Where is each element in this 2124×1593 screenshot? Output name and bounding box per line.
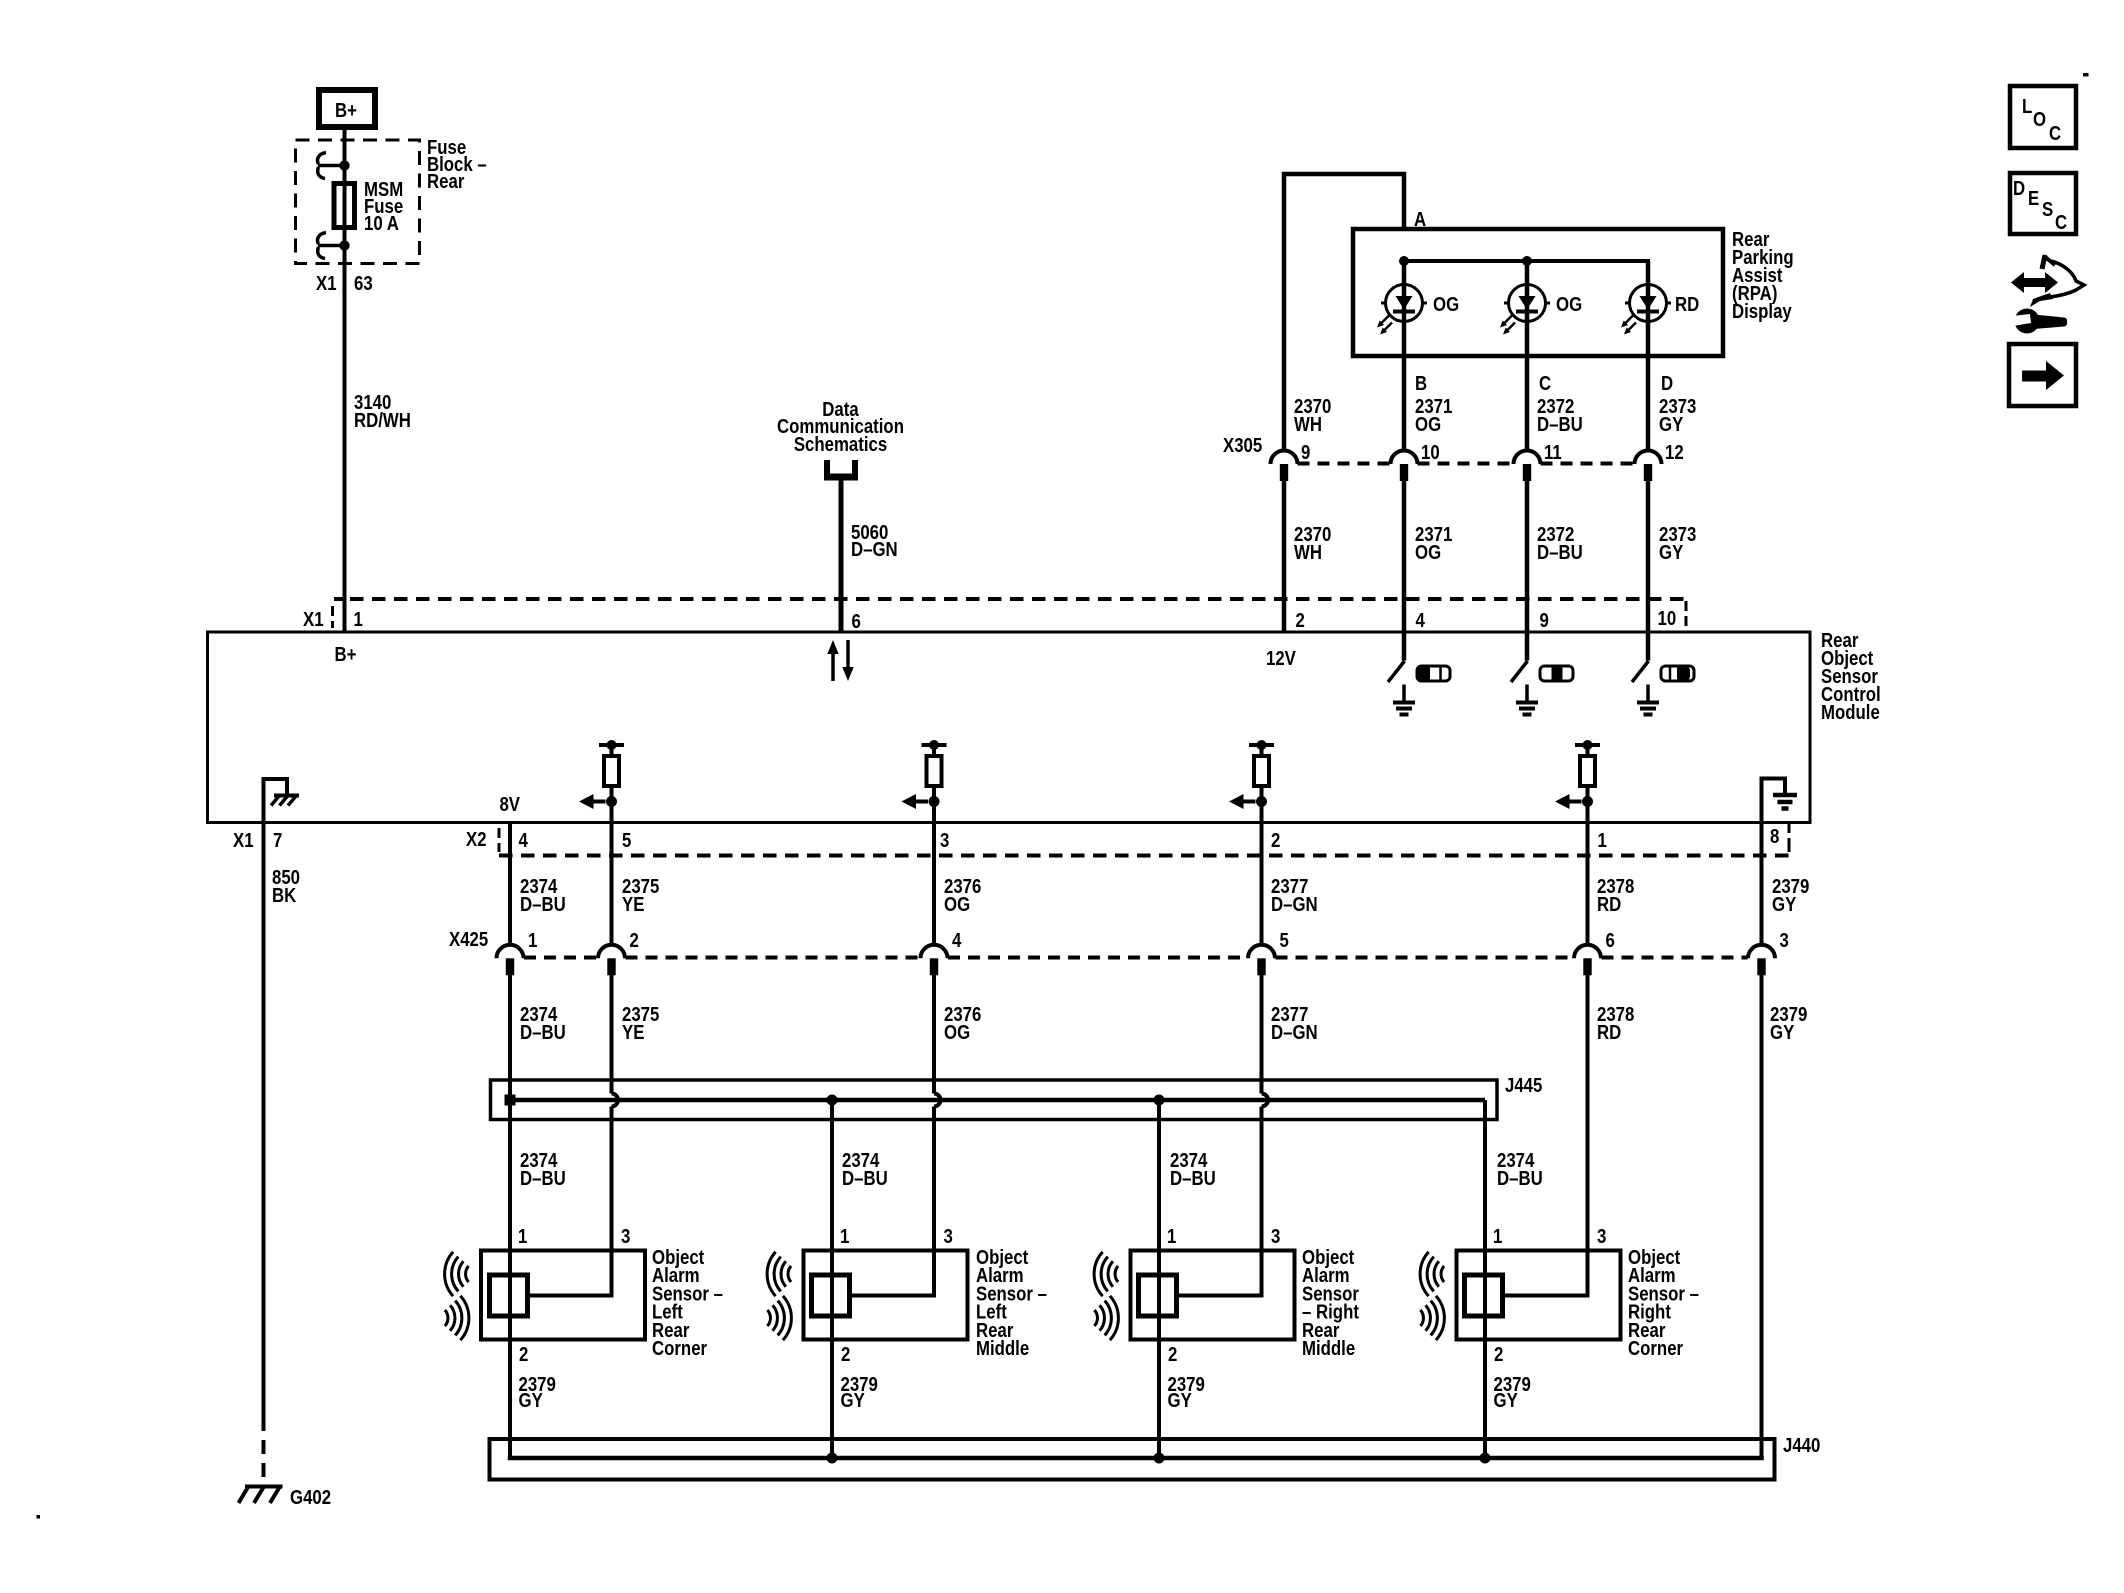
LED driver switch at pin (x=1404) (1388, 632, 1415, 715)
wire labels 2374 D-BU to sensors (520, 1148, 1543, 1189)
svg-text:D–GN: D–GN (1271, 1020, 1318, 1043)
svg-text:D–BU: D–BU (842, 1166, 888, 1189)
svg-text:GY: GY (1659, 412, 1684, 435)
sensor 2 internal link wire (850, 1251, 935, 1296)
Rear Parking Assist (RPA) Display box (1353, 229, 1723, 356)
module internal ground (earth) at X2-8 (1762, 779, 1798, 823)
object alarm sensor 4 box (1457, 1251, 1621, 1340)
connector X305 pin 10 (1391, 450, 1418, 481)
svg-text:D–BU: D–BU (1497, 1166, 1543, 1189)
sensor 3 pin 2 and ground wire 2379 GY (1157, 1340, 1161, 1459)
wire label 5060 D-GN (851, 520, 898, 560)
svg-text:GY: GY (519, 1388, 544, 1411)
svg-text:1: 1 (1493, 1224, 1502, 1247)
ground G402 (chassis) (239, 1486, 283, 1504)
wire 2374 D-BU (8V feed) module X2-4 to X425-1 (508, 822, 512, 945)
label Rear Object Sensor Control Module (1821, 628, 1881, 723)
connector X425 pin 1 (497, 945, 524, 976)
svg-text:E: E (2028, 186, 2039, 209)
svg-text:12: 12 (1665, 440, 1684, 463)
car distance icon (mid segment filled) (1540, 666, 1573, 681)
svg-text:5: 5 (622, 828, 631, 851)
sensor 2 label (976, 1245, 1047, 1359)
splice node sensor 2 ground (827, 1453, 838, 1464)
svg-text:1: 1 (840, 1224, 849, 1247)
sensor 3 internal link wire (1177, 1251, 1262, 1296)
wire labels above X305 (1294, 394, 1696, 435)
ultrasonic waves icon sensor 1 (445, 1252, 469, 1340)
ultrasonic waves icon sensor 2 (767, 1252, 791, 1340)
wire label 2379 GY below sensor 4 (1494, 1372, 1531, 1411)
connector X305 pin 11 (1514, 450, 1541, 481)
RPA internal supply bus (1404, 261, 1648, 285)
ultrasonic waves icon sensor 3 (1094, 1252, 1118, 1340)
wire label 2379 GY below sensor 3 (1168, 1372, 1205, 1411)
Rear Object Sensor Control Module box (208, 632, 1811, 823)
svg-text:5: 5 (1280, 928, 1289, 951)
svg-text:X1: X1 (233, 828, 254, 851)
connector X425 pin 2 (598, 945, 625, 976)
junction node at LED2 (1522, 256, 1532, 266)
splice pack J440 box (490, 1439, 1775, 1480)
pull-up resistor R4 with sense arrow (1555, 740, 1600, 822)
svg-text:7: 7 (273, 828, 282, 851)
wire 2374 branch to sensor 2 (830, 1100, 834, 1251)
icon wiring/repair (double arrow, outline arrow, wrench) (2011, 255, 2084, 334)
svg-text:D–BU: D–BU (520, 1166, 566, 1189)
svg-text:3: 3 (1780, 928, 1789, 951)
svg-text:OG: OG (1415, 540, 1441, 563)
svg-text:3: 3 (940, 828, 949, 851)
svg-text:C: C (1539, 371, 1552, 394)
svg-text:X2: X2 (466, 827, 487, 850)
wire label 3140 RD/WH (354, 390, 411, 431)
svg-text:BK: BK (272, 883, 297, 906)
module connector boundary X1 (top, dashed) (333, 599, 1687, 628)
svg-text:X1: X1 (316, 271, 337, 294)
svg-text:D–BU: D–BU (520, 892, 566, 915)
sensor 3 pin numbers 1 and 3 (1167, 1224, 1280, 1247)
svg-text:GY: GY (841, 1388, 866, 1411)
svg-text:63: 63 (354, 271, 373, 294)
svg-text:S: S (2042, 197, 2053, 220)
svg-text:D–GN: D–GN (851, 537, 898, 560)
serial data bidirectional arrows (827, 640, 853, 681)
svg-text:X305: X305 (1223, 433, 1262, 456)
wire 850 BK from module X1-7 to G402 (262, 822, 266, 1417)
svg-text:3: 3 (944, 1224, 953, 1247)
sensor 4 transducer element (1465, 1275, 1503, 1316)
J445 bus (510, 1098, 1485, 1103)
svg-text:Middle: Middle (1302, 1336, 1355, 1359)
svg-text:G402: G402 (290, 1485, 331, 1508)
svg-text:L: L (2022, 94, 2032, 117)
sensor 3 transducer element (1139, 1275, 1177, 1316)
wire 5060 D-GN (serial data) (839, 480, 844, 632)
wire label 850 BK (272, 865, 300, 906)
sensor 3 pin 1 internal wire (1157, 1251, 1161, 1340)
svg-text:2: 2 (630, 928, 639, 951)
module bottom pin numbers (233, 824, 1779, 851)
svg-text:D–BU: D–BU (520, 1020, 566, 1043)
svg-text:OG: OG (1556, 292, 1582, 315)
sensor 2 pin numbers 1 and 3 (840, 1224, 953, 1247)
svg-text:6: 6 (1606, 928, 1615, 951)
connector X305 pin 9 (1271, 450, 1298, 481)
svg-text:WH: WH (1294, 540, 1322, 563)
svg-text:A: A (1414, 207, 1427, 230)
wire 2374 branch to sensor 1 (508, 1100, 512, 1251)
wire label 2379 GY below sensor 2 (841, 1372, 878, 1411)
wire 2378 RD module to X425 (1586, 822, 1590, 945)
svg-text:WH: WH (1294, 412, 1322, 435)
svg-text:O: O (2033, 107, 2046, 130)
svg-text:Module: Module (1821, 700, 1880, 723)
wire 3140 RD/WH from B+ through MSM fuse to module X1-1 (343, 130, 347, 632)
pull-up resistor R3 with sense arrow (1229, 740, 1274, 822)
module internal ground (chassis) at X1-7 (264, 779, 300, 822)
svg-text:2: 2 (1168, 1342, 1177, 1365)
svg-text:10: 10 (1421, 440, 1440, 463)
svg-text:GY: GY (1772, 892, 1797, 915)
sensor 4 label (1628, 1245, 1699, 1359)
LED indicator RD (1621, 261, 1671, 356)
svg-text:2: 2 (841, 1342, 850, 1365)
sensor 2 pin 2 and ground wire 2379 GY (830, 1340, 834, 1459)
splice node to sensor 2 (827, 1095, 838, 1106)
object alarm sensor 3 box (1131, 1251, 1295, 1340)
fuse MSM 10 A (334, 184, 355, 228)
svg-text:YE: YE (622, 892, 644, 915)
wires from X305 down to module (1282, 481, 1287, 632)
svg-text:OG: OG (1415, 412, 1441, 435)
svg-text:3: 3 (621, 1224, 630, 1247)
svg-text:6: 6 (852, 609, 861, 632)
wire 2375 YE X425-2 to sensor 1 (hops J445 bus) (610, 975, 614, 1251)
svg-text:D: D (1661, 371, 1673, 394)
LED driver switch at pin (x=1527) (1511, 632, 1538, 715)
icon LOC (2010, 86, 2076, 148)
sensor 4 pin 1 internal wire (1483, 1251, 1487, 1340)
ultrasonic waves icon sensor 4 (1420, 1252, 1444, 1340)
svg-text:Corner: Corner (652, 1336, 707, 1359)
X425 connector dashed tie lines (524, 956, 1748, 960)
svg-text:J440: J440 (1783, 1433, 1820, 1456)
sensor 4 pin 2 and ground wire 2379 GY (1483, 1340, 1487, 1459)
svg-text:D–GN: D–GN (1271, 892, 1318, 915)
svg-text:8V: 8V (499, 792, 520, 815)
fuse block connector pins X1 63 (316, 271, 373, 294)
svg-text:YE: YE (622, 1020, 644, 1043)
connector X425 pin 6 (1574, 945, 1601, 976)
car distance icon (left segment filled) (1417, 666, 1450, 681)
wire 2377 D-GN X425-5 to sensor 3 (hops J445 bus) (1260, 975, 1264, 1251)
wire 2376 OG X425-4 to sensor 2 (hops J445 bus) (932, 975, 936, 1251)
wire 2376 OG module to X425 (932, 822, 936, 945)
svg-text:11: 11 (1544, 440, 1562, 463)
svg-text:2: 2 (1271, 828, 1280, 851)
svg-text:D–BU: D–BU (1537, 412, 1583, 435)
svg-text:GY: GY (1168, 1388, 1193, 1411)
svg-text:B: B (1415, 371, 1427, 394)
J440 bus (510, 1456, 1762, 1458)
svg-text:B+: B+ (335, 642, 357, 665)
module connector boundary X1/X2 (bottom, dashed) (499, 823, 1789, 856)
object alarm sensor 1 box (481, 1251, 645, 1340)
svg-text:RD: RD (1597, 1020, 1621, 1043)
off-page bracket symbol (824, 460, 858, 477)
svg-text:4: 4 (952, 928, 962, 951)
wire labels below X305 (1294, 522, 1696, 563)
sensor 1 pin 2 and ground wire 2379 GY (508, 1340, 512, 1459)
wire 2375 YE module to X425 (610, 822, 614, 945)
sensor 1 transducer element (490, 1275, 528, 1316)
module top pin numbers (303, 606, 1676, 632)
label Fuse Block - Rear (427, 135, 487, 192)
svg-text:GY: GY (1770, 1020, 1795, 1043)
svg-text:RD: RD (1597, 892, 1621, 915)
sensor 4 pin numbers 1 and 3 (1493, 1224, 1606, 1247)
label Rear Parking Assist (RPA) Display (1732, 227, 1794, 322)
sensor 1 internal link wire (528, 1251, 612, 1296)
svg-text:3: 3 (1271, 1224, 1280, 1247)
sensor 2 pin 1 internal wire (830, 1251, 834, 1340)
svg-text:3: 3 (1597, 1224, 1606, 1247)
svg-text:9: 9 (1540, 608, 1549, 631)
svg-text:GY: GY (1494, 1388, 1519, 1411)
svg-text:OG: OG (944, 892, 970, 915)
svg-text:J445: J445 (1505, 1073, 1542, 1096)
wire 2370 WH from module X1-2 up over to RPA display pin A (1284, 174, 1404, 451)
svg-text:D–BU: D–BU (1170, 1166, 1216, 1189)
wire 2378 RD X425-6 to sensor 4 (1586, 975, 1590, 1251)
fuse clip terminal upper (318, 153, 350, 179)
pin letters B C D (1415, 371, 1673, 394)
sensor 1 label (652, 1245, 723, 1359)
wire labels below X425 (520, 1002, 1807, 1043)
svg-text:2: 2 (1296, 608, 1305, 631)
svg-text:D: D (2013, 176, 2025, 199)
wire 2377 D-GN module to X425 (1260, 822, 1264, 945)
sensor 2 transducer element (812, 1275, 850, 1316)
connector X305 pin 12 (1635, 450, 1662, 481)
fuse block - rear (dashed outline) (296, 140, 420, 264)
sensor 1 pin numbers 1 and 3 (518, 1224, 630, 1247)
svg-text:9: 9 (1301, 440, 1310, 463)
splice node to sensor 3 (1154, 1095, 1165, 1106)
LED driver switch at pin (x=1648) (1632, 632, 1659, 715)
svg-text:Rear: Rear (427, 169, 464, 192)
scan speck top right (2083, 73, 2089, 77)
wire 2373 GY pin D (1646, 356, 1651, 451)
svg-text:12V: 12V (1266, 646, 1296, 669)
fuse clip terminal lower (318, 233, 350, 259)
wire label 2379 GY below sensor 1 (519, 1372, 556, 1411)
sensor 1 pin 1 internal wire (508, 1251, 512, 1340)
object alarm sensor 2 box (804, 1251, 968, 1340)
svg-text:C: C (2049, 121, 2062, 144)
svg-text:Middle: Middle (976, 1336, 1029, 1359)
label MSM Fuse 10 A (364, 177, 403, 234)
svg-text:2: 2 (1494, 1342, 1503, 1365)
svg-text:1: 1 (354, 607, 363, 630)
svg-text:GY: GY (1659, 540, 1684, 563)
svg-text:OG: OG (944, 1020, 970, 1043)
svg-text:1: 1 (528, 928, 537, 951)
off-page connector: Data Communication Schematics (777, 397, 904, 455)
icon next-page arrow (2009, 344, 2076, 406)
pull-up resistor R1 with sense arrow (579, 740, 624, 822)
svg-text:RD/WH: RD/WH (354, 408, 411, 431)
wire 2371 OG pin B (1402, 356, 1407, 451)
car distance icon (right segment filled) (1661, 666, 1694, 681)
splice node sensor 3 ground (1154, 1453, 1165, 1464)
splice pack J445 box (491, 1080, 1498, 1120)
svg-text:C: C (2055, 210, 2068, 233)
sensor 4 internal link wire (1503, 1251, 1588, 1296)
svg-text:Schematics: Schematics (794, 432, 887, 455)
J445 left terminal node (505, 1095, 516, 1106)
icon DESC (2010, 173, 2076, 234)
scan speck bottom left (37, 1515, 41, 1519)
wire 2372 D-BU pin C (1525, 356, 1530, 451)
svg-text:D–BU: D–BU (1537, 540, 1583, 563)
battery feed B+ box (316, 87, 378, 130)
svg-text:OG: OG (1433, 292, 1459, 315)
sensor 3 label (1302, 1245, 1360, 1359)
svg-text:1: 1 (1598, 828, 1607, 851)
svg-text:X425: X425 (449, 927, 488, 950)
pull-up resistor R2 with sense arrow (902, 740, 947, 822)
svg-text:2: 2 (519, 1342, 528, 1365)
svg-text:B+: B+ (335, 98, 357, 121)
svg-text:RD: RD (1675, 292, 1699, 315)
connector X425 pin 4 (921, 945, 948, 976)
X305 connector dashed tie lines (1298, 462, 1635, 466)
svg-text:4: 4 (519, 828, 529, 851)
svg-text:8: 8 (1770, 824, 1779, 847)
connector X425 pin 5 (1248, 945, 1275, 976)
wire 2379 GY module X2-8 to X425-3 (1760, 822, 1764, 945)
junction node at LED1 (1399, 256, 1409, 266)
wire 2374 branch to sensor 4 (1483, 1100, 1487, 1251)
LED indicator OG (1500, 261, 1550, 356)
svg-text:Corner: Corner (1628, 1336, 1683, 1359)
LED indicator OG (1377, 261, 1427, 356)
connector X425 pin 3 (1748, 945, 1775, 976)
wire 2374 D-BU X425-1 to J445 (508, 975, 512, 1100)
wire labels between module and X425 (520, 874, 1809, 915)
svg-text:Display: Display (1732, 299, 1792, 322)
wire 2374 branch to sensor 3 (1157, 1100, 1161, 1251)
svg-text:10: 10 (1658, 606, 1677, 629)
svg-text:4: 4 (1416, 608, 1426, 631)
svg-text:X1: X1 (303, 607, 324, 630)
wire 2379 GY X425-3 to J440 (1760, 975, 1764, 1458)
svg-text:10 A: 10 A (364, 211, 399, 234)
splice node sensor 4 ground (1480, 1453, 1491, 1464)
svg-text:1: 1 (1167, 1224, 1176, 1247)
svg-text:1: 1 (518, 1224, 527, 1247)
